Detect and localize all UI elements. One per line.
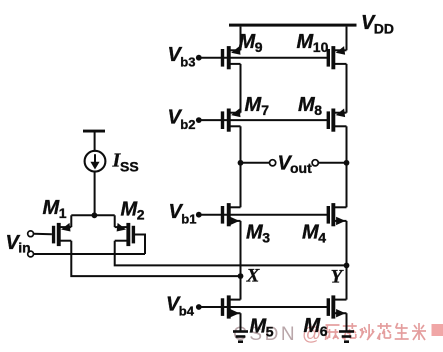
svg-text:M10: M10 bbox=[297, 31, 329, 55]
transistor M8 bbox=[327, 109, 347, 132]
svg-text:ISS: ISS bbox=[112, 150, 139, 175]
watermark char 生 bbox=[395, 323, 409, 339]
wire M9 drain to M7 source bbox=[240, 64, 242, 113]
svg-text:CSDN: CSDN bbox=[233, 324, 297, 345]
VDD stub above ISS bbox=[83, 130, 105, 133]
wire M4 source to node Y bbox=[346, 221, 348, 266]
terminal Vin+ bbox=[28, 231, 34, 237]
wire Vb3 gate bus bbox=[201, 57, 328, 59]
wire VDD stub to ISS bbox=[94, 133, 96, 152]
wire node Y to M6 drain bbox=[346, 265, 348, 299]
terminal Vout left bbox=[270, 160, 276, 166]
watermark char 花 bbox=[343, 323, 357, 340]
VDD rail bbox=[229, 24, 357, 27]
wire M2 gate loop bbox=[135, 235, 145, 255]
wire VDD rail to M9 source bbox=[240, 27, 242, 51]
svg-text:Vin: Vin bbox=[6, 232, 31, 255]
terminal Vin- bbox=[28, 251, 34, 257]
node Y bbox=[344, 263, 350, 269]
transistor M3 bbox=[221, 203, 241, 226]
wire M6 source to ground bbox=[346, 313, 348, 331]
svg-text:M7: M7 bbox=[245, 94, 270, 118]
watermark char 麻 bbox=[326, 325, 340, 340]
node X bbox=[238, 273, 244, 279]
transistor M7 bbox=[221, 109, 241, 132]
svg-text:M1: M1 bbox=[43, 197, 67, 221]
transistor M6 bbox=[327, 295, 347, 318]
terminal Vout right bbox=[312, 160, 318, 166]
wire Vout right stub bbox=[318, 162, 346, 164]
junction Vout right bbox=[344, 160, 350, 166]
svg-text:VDD: VDD bbox=[361, 12, 394, 37]
svg-text:M9: M9 bbox=[239, 31, 263, 55]
wire M10 drain to M8 source bbox=[346, 64, 348, 113]
svg-text:M2: M2 bbox=[121, 198, 145, 222]
wire tail to M2 source bbox=[94, 214, 114, 216]
wire Vb4 gate bus bbox=[201, 306, 328, 308]
wire Vin- lead bbox=[34, 253, 145, 255]
wire node X to M5 drain bbox=[240, 276, 242, 300]
wire M2 drain to node Y bbox=[115, 241, 347, 266]
wire M7 drain to Vout node bbox=[240, 126, 242, 163]
wire M1 drain to node X bbox=[71, 241, 240, 276]
watermark char 花(2) bbox=[377, 323, 391, 340]
transistor M9 bbox=[221, 46, 241, 69]
wire tail to M1 source bbox=[71, 214, 94, 216]
node Vb2 bbox=[196, 117, 202, 123]
svg-text:@: @ bbox=[302, 324, 321, 345]
wire VDD rail to M10 source bbox=[346, 27, 348, 51]
ground under M5 bbox=[233, 330, 248, 343]
junction Vout left bbox=[238, 160, 244, 166]
svg-text:M4: M4 bbox=[302, 221, 326, 245]
wire Vout node to M4 drain bbox=[346, 163, 348, 208]
wire tail drop M1 bbox=[70, 215, 72, 227]
svg-text:M3: M3 bbox=[246, 221, 270, 245]
node Vb4 bbox=[196, 304, 202, 310]
wire M3 source to node X bbox=[240, 221, 242, 276]
wire Vin+ to M1 gate bbox=[34, 233, 52, 236]
watermark pink block bbox=[432, 324, 443, 336]
svg-text:Vout: Vout bbox=[278, 152, 313, 176]
watermark char 炒 bbox=[360, 324, 374, 340]
svg-text:Vb1: Vb1 bbox=[169, 201, 197, 226]
svg-text:X: X bbox=[246, 266, 261, 287]
wire Vb2 gate bus bbox=[201, 119, 328, 121]
wire M8 drain to Vout node bbox=[346, 126, 348, 163]
wire Vout left stub bbox=[241, 162, 270, 164]
wire Vb1 gate bus bbox=[201, 214, 328, 216]
node Vb1 bbox=[196, 212, 202, 218]
svg-text:Vb2: Vb2 bbox=[168, 107, 196, 132]
transistor M2 bbox=[115, 223, 135, 246]
transistor M1 bbox=[52, 223, 71, 246]
wire ISS to tail node bbox=[94, 172, 96, 216]
current source ISS bbox=[85, 151, 106, 172]
svg-text:Vb4: Vb4 bbox=[166, 294, 195, 319]
transistor M5 bbox=[221, 295, 241, 318]
wire tail drop M2 bbox=[114, 215, 116, 227]
svg-text:Vb3: Vb3 bbox=[168, 44, 196, 69]
wire M5 source to ground bbox=[240, 313, 242, 331]
svg-text:M8: M8 bbox=[298, 94, 322, 118]
watermark char 米 bbox=[412, 323, 426, 340]
ground under M6 bbox=[339, 330, 354, 343]
transistor M10 bbox=[327, 46, 347, 69]
svg-text:Y: Y bbox=[331, 266, 345, 287]
wire Vout node to M3 drain bbox=[240, 163, 242, 208]
node Vb3 bbox=[196, 55, 202, 61]
junction tail node bbox=[92, 212, 98, 218]
transistor M4 bbox=[327, 203, 347, 226]
